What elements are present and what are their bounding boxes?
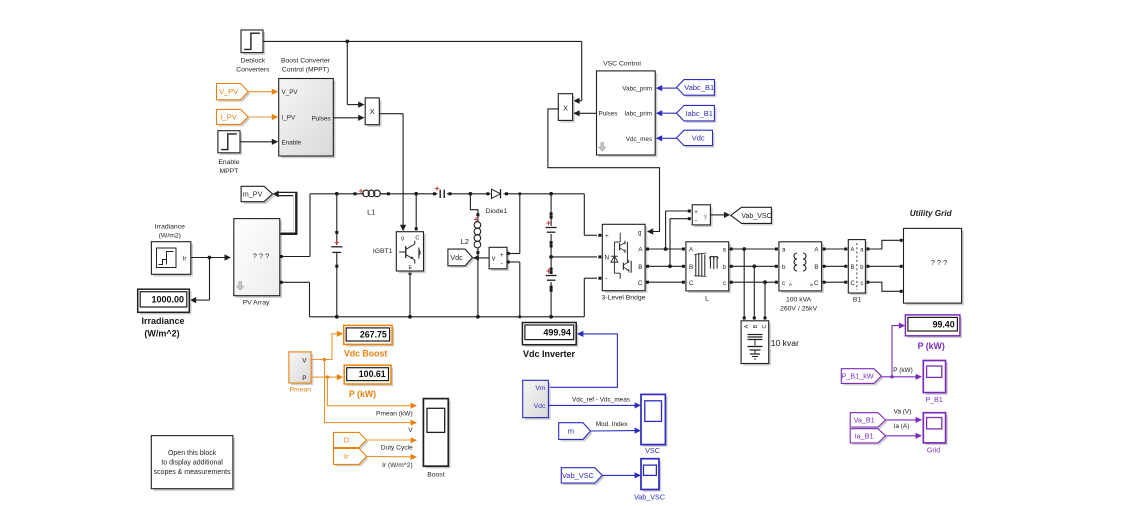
svg-text:c: c — [861, 281, 864, 287]
svg-text:Ia_B1: Ia_B1 — [855, 431, 874, 440]
svg-text:Pulses: Pulses — [312, 116, 331, 123]
svg-text:V_PV: V_PV — [282, 89, 299, 96]
svg-text:10 kvar: 10 kvar — [771, 338, 799, 348]
svg-text:P (kW): P (kW) — [349, 389, 376, 399]
svg-text:a: a — [810, 283, 813, 288]
svg-text:Vdc: Vdc — [534, 403, 546, 410]
svg-text:100.61: 100.61 — [359, 369, 386, 379]
svg-text:100 kVA: 100 kVA — [786, 297, 812, 304]
svg-text:A: A — [744, 324, 750, 328]
svg-text:P (kW): P (kW) — [918, 341, 945, 351]
svg-text:Vdc_ref - Vdc_meas: Vdc_ref - Vdc_meas — [572, 396, 630, 403]
svg-text:Vab_VSC: Vab_VSC — [634, 493, 665, 502]
svg-text:Converters: Converters — [236, 67, 270, 74]
svg-text:Enable: Enable — [218, 159, 239, 166]
svg-text:Ia (A): Ia (A) — [894, 423, 910, 430]
svg-text:C: C — [415, 235, 419, 241]
svg-text:Vdc_mes: Vdc_mes — [626, 136, 652, 143]
svg-text:Irradiance: Irradiance — [141, 316, 184, 326]
svg-text:Diode1: Diode1 — [486, 208, 508, 215]
svg-text:to display additional: to display additional — [161, 460, 223, 467]
svg-text:D: D — [344, 436, 349, 445]
svg-text:VSC: VSC — [645, 446, 660, 455]
svg-text:267.75: 267.75 — [360, 330, 387, 340]
svg-text:m_PV: m_PV — [243, 190, 263, 199]
svg-text:g: g — [638, 229, 642, 236]
svg-text:(W/m^2): (W/m^2) — [144, 328, 179, 338]
svg-text:B: B — [753, 324, 759, 328]
svg-text:MPPT: MPPT — [219, 168, 238, 175]
svg-text:(W/m2): (W/m2) — [159, 233, 181, 240]
svg-text:C: C — [689, 280, 694, 287]
svg-text:C: C — [638, 280, 643, 287]
svg-text:499.94: 499.94 — [543, 327, 571, 337]
svg-text:Va (V): Va (V) — [894, 409, 912, 416]
svg-text:A: A — [638, 247, 643, 254]
svg-text:Vabc_B1: Vabc_B1 — [684, 83, 714, 92]
svg-text:Vabc_prim: Vabc_prim — [622, 86, 652, 93]
svg-text:b: b — [782, 264, 786, 271]
svg-text:B: B — [814, 264, 818, 271]
svg-text:Deblock: Deblock — [241, 57, 266, 64]
svg-text:Boost: Boost — [427, 472, 444, 479]
svg-text:X: X — [370, 107, 375, 116]
svg-text:C: C — [762, 324, 768, 328]
svg-text:Pulses: Pulses — [599, 111, 618, 118]
svg-text:a: a — [782, 247, 786, 254]
svg-text:+: + — [605, 233, 609, 240]
svg-text:Ir: Ir — [344, 452, 349, 461]
svg-text:Vab_VSC: Vab_VSC — [741, 213, 771, 220]
svg-text:Vdc: Vdc — [692, 134, 705, 143]
svg-text:Mod. Index: Mod. Index — [596, 421, 628, 428]
svg-text:m: m — [568, 427, 574, 436]
svg-text:Ir (W/m^2): Ir (W/m^2) — [382, 462, 413, 469]
svg-text:X: X — [563, 103, 568, 112]
svg-text:VSC Control: VSC Control — [603, 61, 641, 68]
svg-text:Pmean: Pmean — [290, 387, 312, 394]
svg-text:? ? ?: ? ? ? — [253, 251, 269, 260]
svg-text:B: B — [689, 264, 693, 271]
svg-text:Vab_VSC: Vab_VSC — [562, 471, 595, 480]
svg-text:Va_B1: Va_B1 — [854, 415, 875, 424]
svg-text:B1: B1 — [853, 297, 862, 304]
svg-text:C: C — [814, 280, 819, 287]
svg-text:E: E — [408, 265, 412, 271]
svg-text:Iabc_prim: Iabc_prim — [624, 111, 652, 118]
svg-text:c: c — [723, 280, 726, 287]
svg-text:Enable: Enable — [282, 139, 302, 146]
svg-text:Duty Cycle: Duty Cycle — [381, 445, 413, 452]
svg-text:Boost Converter: Boost Converter — [281, 57, 331, 64]
svg-text:Vdc Boost: Vdc Boost — [344, 348, 388, 358]
svg-text:L: L — [705, 296, 709, 303]
svg-text:A: A — [851, 248, 855, 254]
svg-text:a: a — [723, 247, 727, 254]
svg-text:C: C — [851, 281, 856, 287]
svg-text:B: B — [638, 264, 642, 271]
svg-text:P_B1: P_B1 — [926, 397, 943, 404]
svg-text:Open this block: Open this block — [168, 450, 217, 457]
svg-text:g: g — [401, 235, 404, 241]
svg-text:+: + — [500, 252, 504, 259]
svg-text:V: V — [408, 427, 413, 434]
svg-text:PV Array: PV Array — [243, 300, 270, 307]
svg-text:P (kW): P (kW) — [893, 367, 912, 374]
svg-text:P_B1_kW: P_B1_kW — [842, 372, 874, 381]
svg-text:B: B — [851, 265, 855, 271]
svg-text:1000.00: 1000.00 — [151, 294, 184, 304]
svg-text:Vdc: Vdc — [450, 253, 463, 262]
svg-text:Irradiance: Irradiance — [155, 224, 185, 231]
svg-text:Iabc_B1: Iabc_B1 — [685, 109, 713, 118]
svg-text:P: P — [302, 375, 306, 382]
svg-text:Grid: Grid — [927, 448, 940, 455]
svg-text:3-Level Bridge: 3-Level Bridge — [602, 295, 646, 302]
svg-text:L2: L2 — [461, 237, 469, 246]
svg-text:Vm: Vm — [535, 385, 546, 392]
svg-text:260V / 25kV: 260V / 25kV — [780, 306, 817, 313]
svg-text:c: c — [782, 280, 785, 287]
svg-text:scopes & measurements: scopes & measurements — [154, 469, 232, 476]
svg-text:99.40: 99.40 — [933, 319, 955, 329]
svg-text:V: V — [302, 357, 307, 364]
svg-text:b: b — [723, 264, 727, 271]
svg-text:L1: L1 — [367, 208, 375, 217]
svg-text:Utility Grid: Utility Grid — [910, 209, 953, 218]
svg-text:N: N — [605, 255, 610, 262]
svg-text:I_PV: I_PV — [220, 113, 236, 122]
svg-text:IGBT1: IGBT1 — [373, 248, 393, 255]
svg-text:? ? ?: ? ? ? — [931, 258, 947, 267]
svg-text:Vdc Inverter: Vdc Inverter — [523, 349, 576, 359]
svg-text:I_PV: I_PV — [282, 115, 296, 122]
svg-text:Pmean (kW): Pmean (kW) — [376, 410, 413, 417]
svg-text:+: + — [694, 209, 698, 216]
svg-text:Control (MPPT): Control (MPPT) — [282, 67, 329, 74]
svg-text:v: v — [492, 256, 496, 263]
svg-text:V_PV: V_PV — [219, 87, 238, 96]
